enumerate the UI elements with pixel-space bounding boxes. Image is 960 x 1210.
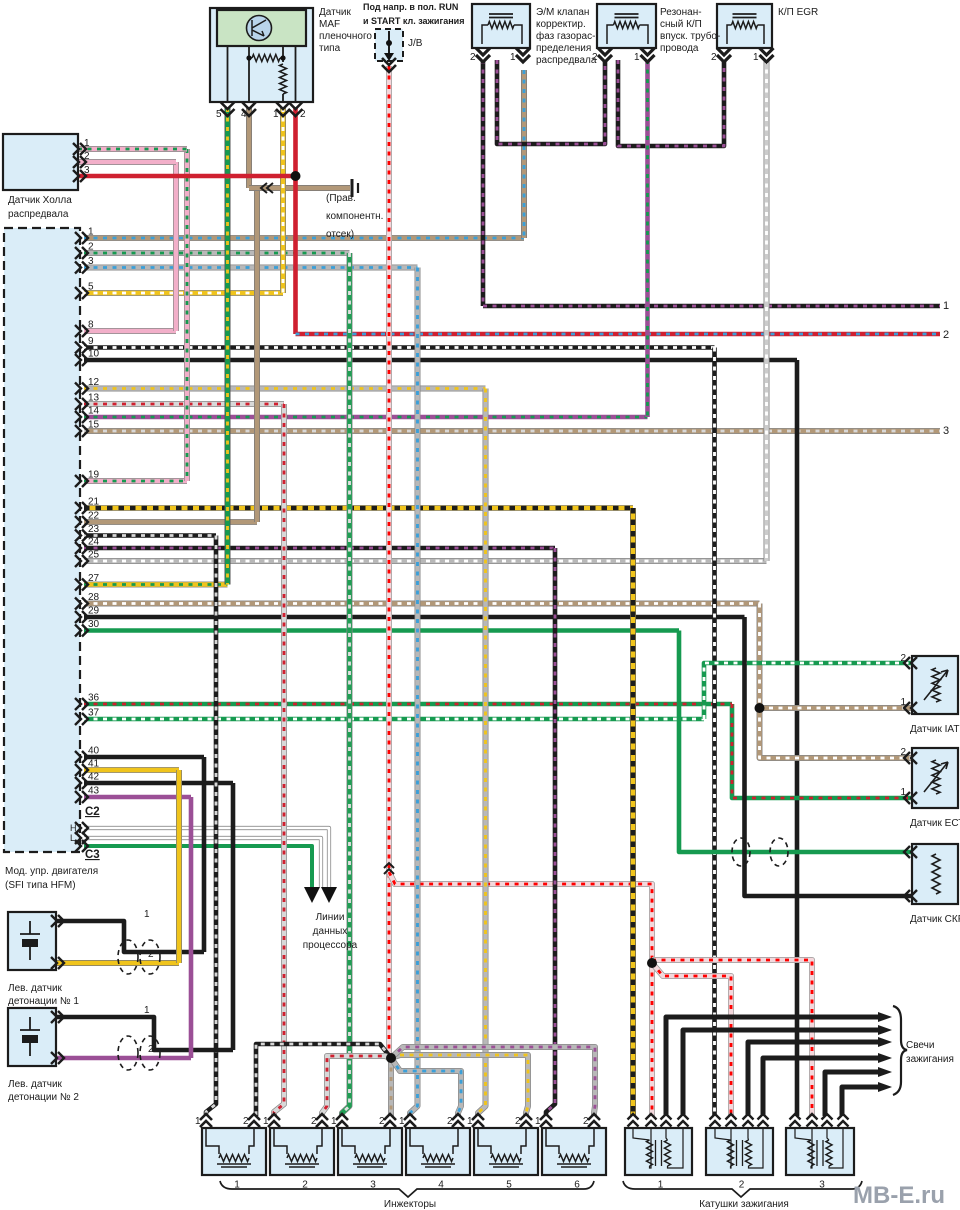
svg-text:3: 3 bbox=[943, 425, 949, 437]
svg-text:данных: данных bbox=[313, 926, 348, 937]
svg-text:29: 29 bbox=[88, 606, 100, 617]
svg-text:37: 37 bbox=[88, 708, 100, 719]
svg-text:детонации № 1: детонации № 1 bbox=[8, 996, 79, 1007]
svg-text:2: 2 bbox=[583, 1116, 589, 1127]
svg-text:распредвала: распредвала bbox=[536, 55, 597, 66]
svg-text:Резонан-: Резонан- bbox=[660, 7, 702, 18]
svg-text:пленочного: пленочного bbox=[319, 31, 372, 42]
svg-text:2: 2 bbox=[300, 109, 306, 120]
svg-text:1: 1 bbox=[399, 1116, 405, 1127]
svg-text:24: 24 bbox=[88, 537, 100, 548]
svg-text:Датчик IAT: Датчик IAT bbox=[910, 724, 959, 735]
svg-text:2: 2 bbox=[84, 151, 90, 162]
svg-text:2: 2 bbox=[88, 242, 94, 253]
svg-text:1: 1 bbox=[144, 1005, 150, 1016]
svg-text:2: 2 bbox=[148, 1044, 154, 1055]
svg-text:Лев. датчик: Лев. датчик bbox=[8, 983, 63, 994]
svg-text:сный К/П: сный К/П bbox=[660, 19, 702, 30]
svg-text:К/П EGR: К/П EGR bbox=[778, 7, 818, 18]
svg-text:Инжекторы: Инжекторы bbox=[384, 1199, 436, 1210]
svg-text:распредвала: распредвала bbox=[8, 209, 69, 220]
svg-text:2: 2 bbox=[739, 1180, 745, 1191]
svg-text:провода: провода bbox=[660, 43, 699, 54]
svg-text:5: 5 bbox=[216, 109, 222, 120]
svg-text:J/B: J/B bbox=[408, 38, 423, 49]
svg-text:40: 40 bbox=[88, 746, 100, 757]
svg-text:10: 10 bbox=[88, 349, 100, 360]
svg-text:2: 2 bbox=[470, 52, 476, 63]
svg-text:корректир.: корректир. bbox=[536, 19, 586, 30]
svg-text:MB-E.ru: MB-E.ru bbox=[853, 1182, 945, 1209]
svg-text:30: 30 bbox=[88, 619, 100, 630]
svg-text:2: 2 bbox=[311, 1116, 317, 1127]
svg-text:2: 2 bbox=[148, 949, 154, 960]
svg-text:41: 41 bbox=[88, 759, 100, 770]
svg-text:19: 19 bbox=[88, 470, 100, 481]
svg-text:Под напр. в пол. RUN: Под напр. в пол. RUN bbox=[363, 2, 458, 12]
svg-text:3: 3 bbox=[88, 256, 94, 267]
svg-text:25: 25 bbox=[88, 550, 100, 561]
svg-text:фаз газорас-: фаз газорас- bbox=[536, 30, 595, 42]
svg-text:2: 2 bbox=[379, 1116, 385, 1127]
svg-text:H: H bbox=[70, 823, 77, 833]
svg-text:1: 1 bbox=[273, 109, 279, 120]
svg-text:8: 8 bbox=[88, 320, 94, 331]
svg-text:1: 1 bbox=[900, 697, 906, 708]
svg-text:1: 1 bbox=[634, 52, 640, 63]
svg-text:(SFI типа HFM): (SFI типа HFM) bbox=[5, 880, 76, 891]
svg-text:Датчик Холла: Датчик Холла bbox=[8, 195, 72, 206]
svg-text:Мод. упр. двигателя: Мод. упр. двигателя bbox=[5, 866, 98, 877]
svg-text:MAF: MAF bbox=[319, 19, 340, 30]
svg-text:Лев. датчик: Лев. датчик bbox=[8, 1079, 63, 1090]
svg-text:2: 2 bbox=[515, 1116, 521, 1127]
svg-text:компонентн.: компонентн. bbox=[326, 211, 383, 222]
svg-text:36: 36 bbox=[88, 693, 100, 704]
svg-text:Катушки зажигания: Катушки зажигания bbox=[699, 1199, 789, 1210]
svg-text:(Прав.: (Прав. bbox=[326, 193, 356, 204]
svg-text:2: 2 bbox=[900, 653, 906, 664]
svg-text:Датчик ЕСТ: Датчик ЕСТ bbox=[910, 818, 960, 829]
svg-text:2: 2 bbox=[943, 329, 949, 341]
svg-text:Линии: Линии bbox=[316, 912, 345, 923]
svg-text:23: 23 bbox=[88, 524, 100, 535]
svg-text:22: 22 bbox=[88, 511, 100, 522]
svg-text:L: L bbox=[70, 833, 75, 843]
svg-text:14: 14 bbox=[88, 406, 100, 417]
svg-text:1: 1 bbox=[510, 52, 516, 63]
svg-text:43: 43 bbox=[88, 786, 100, 797]
svg-text:28: 28 bbox=[88, 592, 100, 603]
svg-text:2: 2 bbox=[900, 747, 906, 758]
svg-text:1: 1 bbox=[943, 300, 949, 312]
svg-text:впуск. трубо-: впуск. трубо- bbox=[660, 30, 720, 42]
svg-text:2: 2 bbox=[243, 1116, 249, 1127]
svg-text:1: 1 bbox=[263, 1116, 269, 1127]
svg-text:типа: типа bbox=[319, 43, 341, 54]
svg-text:1: 1 bbox=[535, 1116, 541, 1127]
svg-text:зажигания: зажигания bbox=[906, 1054, 954, 1065]
svg-text:Датчик СКР: Датчик СКР bbox=[910, 914, 960, 925]
svg-text:1: 1 bbox=[195, 1116, 201, 1127]
svg-text:1: 1 bbox=[900, 787, 906, 798]
svg-text:C2: C2 bbox=[85, 806, 100, 818]
svg-text:21: 21 bbox=[88, 497, 100, 508]
svg-text:12: 12 bbox=[88, 377, 100, 388]
svg-text:13: 13 bbox=[88, 393, 100, 404]
svg-text:9: 9 bbox=[88, 336, 94, 347]
svg-text:детонации № 2: детонации № 2 bbox=[8, 1092, 79, 1103]
svg-text:42: 42 bbox=[88, 772, 100, 783]
svg-text:27: 27 bbox=[88, 573, 100, 584]
svg-text:Свечи: Свечи bbox=[906, 1040, 934, 1051]
svg-text:Датчик: Датчик bbox=[319, 7, 351, 18]
svg-text:5: 5 bbox=[88, 282, 94, 293]
svg-text:пределения: пределения bbox=[536, 43, 591, 54]
svg-text:1: 1 bbox=[753, 52, 759, 63]
svg-text:3: 3 bbox=[84, 165, 90, 176]
svg-text:15: 15 bbox=[88, 420, 100, 431]
svg-text:1: 1 bbox=[331, 1116, 337, 1127]
svg-text:и START кл. зажигания: и START кл. зажигания bbox=[363, 16, 464, 26]
svg-text:Э/М клапан: Э/М клапан bbox=[536, 7, 589, 18]
svg-text:1: 1 bbox=[467, 1116, 473, 1127]
svg-text:процессора: процессора bbox=[303, 940, 358, 951]
svg-text:1: 1 bbox=[84, 138, 90, 149]
svg-text:отсек): отсек) bbox=[326, 229, 354, 240]
svg-text:2: 2 bbox=[447, 1116, 453, 1127]
svg-text:1: 1 bbox=[88, 227, 94, 238]
svg-text:4: 4 bbox=[241, 109, 247, 120]
svg-text:C3: C3 bbox=[85, 849, 100, 861]
svg-text:2: 2 bbox=[711, 52, 717, 63]
svg-text:1: 1 bbox=[144, 909, 150, 920]
